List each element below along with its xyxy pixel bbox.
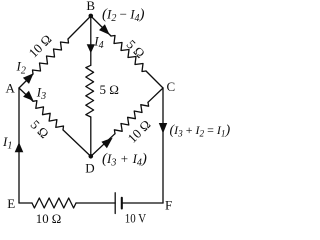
wire A-D lead near A	[19, 88, 33, 101]
svg-text:D: D	[85, 161, 94, 176]
svg-text:10 Ω: 10 Ω	[36, 211, 62, 226]
current arrow (I3+I4) on wire D-C	[101, 138, 112, 149]
wire A-B lead near A	[19, 74, 33, 88]
wire B-C lead near C	[146, 71, 163, 88]
svg-text:10 V: 10 V	[125, 211, 147, 226]
node B junction dot	[89, 14, 94, 19]
resistor R_AB 10 ohm zigzag	[33, 39, 69, 74]
resistor R_EF 10 ohm zigzag	[32, 198, 76, 208]
resistor R_DC 10 ohm zigzag	[114, 102, 148, 133]
svg-text:5 Ω: 5 Ω	[100, 82, 119, 97]
svg-text:E: E	[7, 196, 15, 211]
node D junction dot	[89, 154, 94, 159]
wire E to bottom resistor	[19, 202, 32, 204]
wire A-D lead near D	[63, 130, 91, 157]
resistor R_AD 5 ohm zigzag	[33, 101, 64, 130]
current arrow (I2-I4) on wire B-C	[99, 24, 110, 35]
svg-text:C: C	[166, 79, 175, 94]
current arrow I4 on wire B-D	[87, 44, 95, 53]
wire B-D lower lead	[90, 117, 92, 156]
resistor R_BD 5 ohm middle zigzag	[86, 65, 94, 117]
current arrow (I3+I2) on wire C-F	[159, 123, 167, 134]
wire D-C lead near C	[148, 88, 163, 102]
wire D-C lead near D	[91, 134, 115, 157]
svg-text:F: F	[165, 198, 172, 213]
resistor R_BC 5 ohm zigzag	[111, 36, 146, 72]
battery V1 short plate (-)	[121, 198, 123, 209]
wire A-B lead near B	[68, 16, 91, 39]
svg-text:B: B	[86, 0, 95, 13]
current arrow I1 on wire A-E	[15, 142, 24, 152]
wire B-D upper lead	[90, 16, 92, 65]
battery V1 long plate (+)	[114, 193, 116, 214]
wire resistor to battery	[76, 202, 115, 204]
wire battery to F	[122, 202, 163, 204]
svg-text:A: A	[6, 80, 16, 95]
wire C-F right vertical	[162, 88, 164, 203]
wire B-C lead near B	[91, 16, 111, 36]
current arrow I2 on wire A-B	[23, 73, 34, 84]
current arrow I3 on wire A-D	[23, 91, 33, 101]
wire A-E left vertical	[18, 88, 20, 203]
